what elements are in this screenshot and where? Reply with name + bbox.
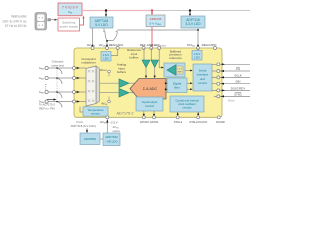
svg-text:noise test: noise test	[51, 63, 64, 67]
svg-text:filter: filter	[174, 86, 180, 90]
svg-text:1.8-V: 1.8-V	[103, 53, 110, 57]
svg-text:ADM660: ADM660	[84, 137, 96, 141]
svg-text:DIN: DIN	[236, 80, 241, 84]
svg-text:DGND: DGND	[216, 120, 225, 124]
svg-text:2.5 V: 2.5 V	[177, 69, 182, 71]
svg-text:47 Hz to 63 Hz: 47 Hz to 63 Hz	[5, 24, 27, 28]
svg-text:LDO: LDO	[103, 56, 109, 60]
svg-text:LDO: LDO	[194, 55, 200, 59]
svg-text:5-V LDO: 5-V LDO	[95, 23, 108, 27]
svg-text:option: option	[113, 129, 121, 133]
svg-text:control: control	[198, 81, 207, 85]
svg-text:Σ-Δ ADC: Σ-Δ ADC	[143, 87, 158, 91]
svg-text:power supply: power supply	[60, 25, 79, 29]
svg-text:ADR445: ADR445	[150, 17, 162, 21]
svg-text:multiplexer: multiplexer	[81, 61, 96, 65]
svg-text:buffers: buffers	[129, 56, 139, 60]
svg-text:clock oscillator: clock oscillator	[178, 102, 196, 106]
svg-text:ADP7118 (5-V LDO): ADP7118 (5-V LDO)	[71, 124, 96, 128]
svg-text:GPIO0: GPIO0	[140, 120, 149, 124]
svg-text:XTAL1: XTAL1	[174, 120, 183, 124]
svg-text:XTAL2/CLKIO: XTAL2/CLKIO	[189, 120, 208, 124]
svg-text:–VE LDO: –VE LDO	[105, 139, 118, 143]
svg-text:REF: REF	[178, 72, 183, 74]
svg-text:–2.5 V: –2.5 V	[110, 120, 118, 124]
svg-text:AD7175-2: AD7175-2	[116, 112, 133, 116]
svg-text:SYNC: SYNC	[234, 92, 242, 96]
svg-text:control: control	[145, 104, 154, 108]
svg-text:REGCAPA: REGCAPA	[109, 43, 123, 47]
svg-text:ADP7118: ADP7118	[186, 18, 200, 22]
svg-text:7 V to 9 V: 7 V to 9 V	[62, 6, 79, 10]
svg-text:100- to 240-V ac: 100- to 240-V ac	[2, 20, 27, 24]
svg-text:Crystal and internal: Crystal and internal	[175, 98, 199, 102]
svg-text:CS: CS	[236, 67, 240, 71]
svg-text:Error: Error	[228, 99, 234, 103]
svg-text:3.3-V LDO: 3.3-V LDO	[185, 22, 201, 26]
svg-text:1.8-V: 1.8-V	[194, 52, 201, 56]
svg-text:sensor: sensor	[91, 112, 100, 116]
svg-text:circuitry: circuitry	[182, 106, 192, 110]
svg-text:Wall outlet: Wall outlet	[11, 15, 26, 19]
svg-text:SCLK: SCLK	[234, 73, 241, 77]
svg-text:DOUT/RDY: DOUT/RDY	[231, 86, 246, 90]
svg-text:buffers: buffers	[117, 70, 127, 74]
svg-text:GPIO1: GPIO1	[150, 120, 159, 124]
svg-text:reference: reference	[169, 56, 182, 60]
